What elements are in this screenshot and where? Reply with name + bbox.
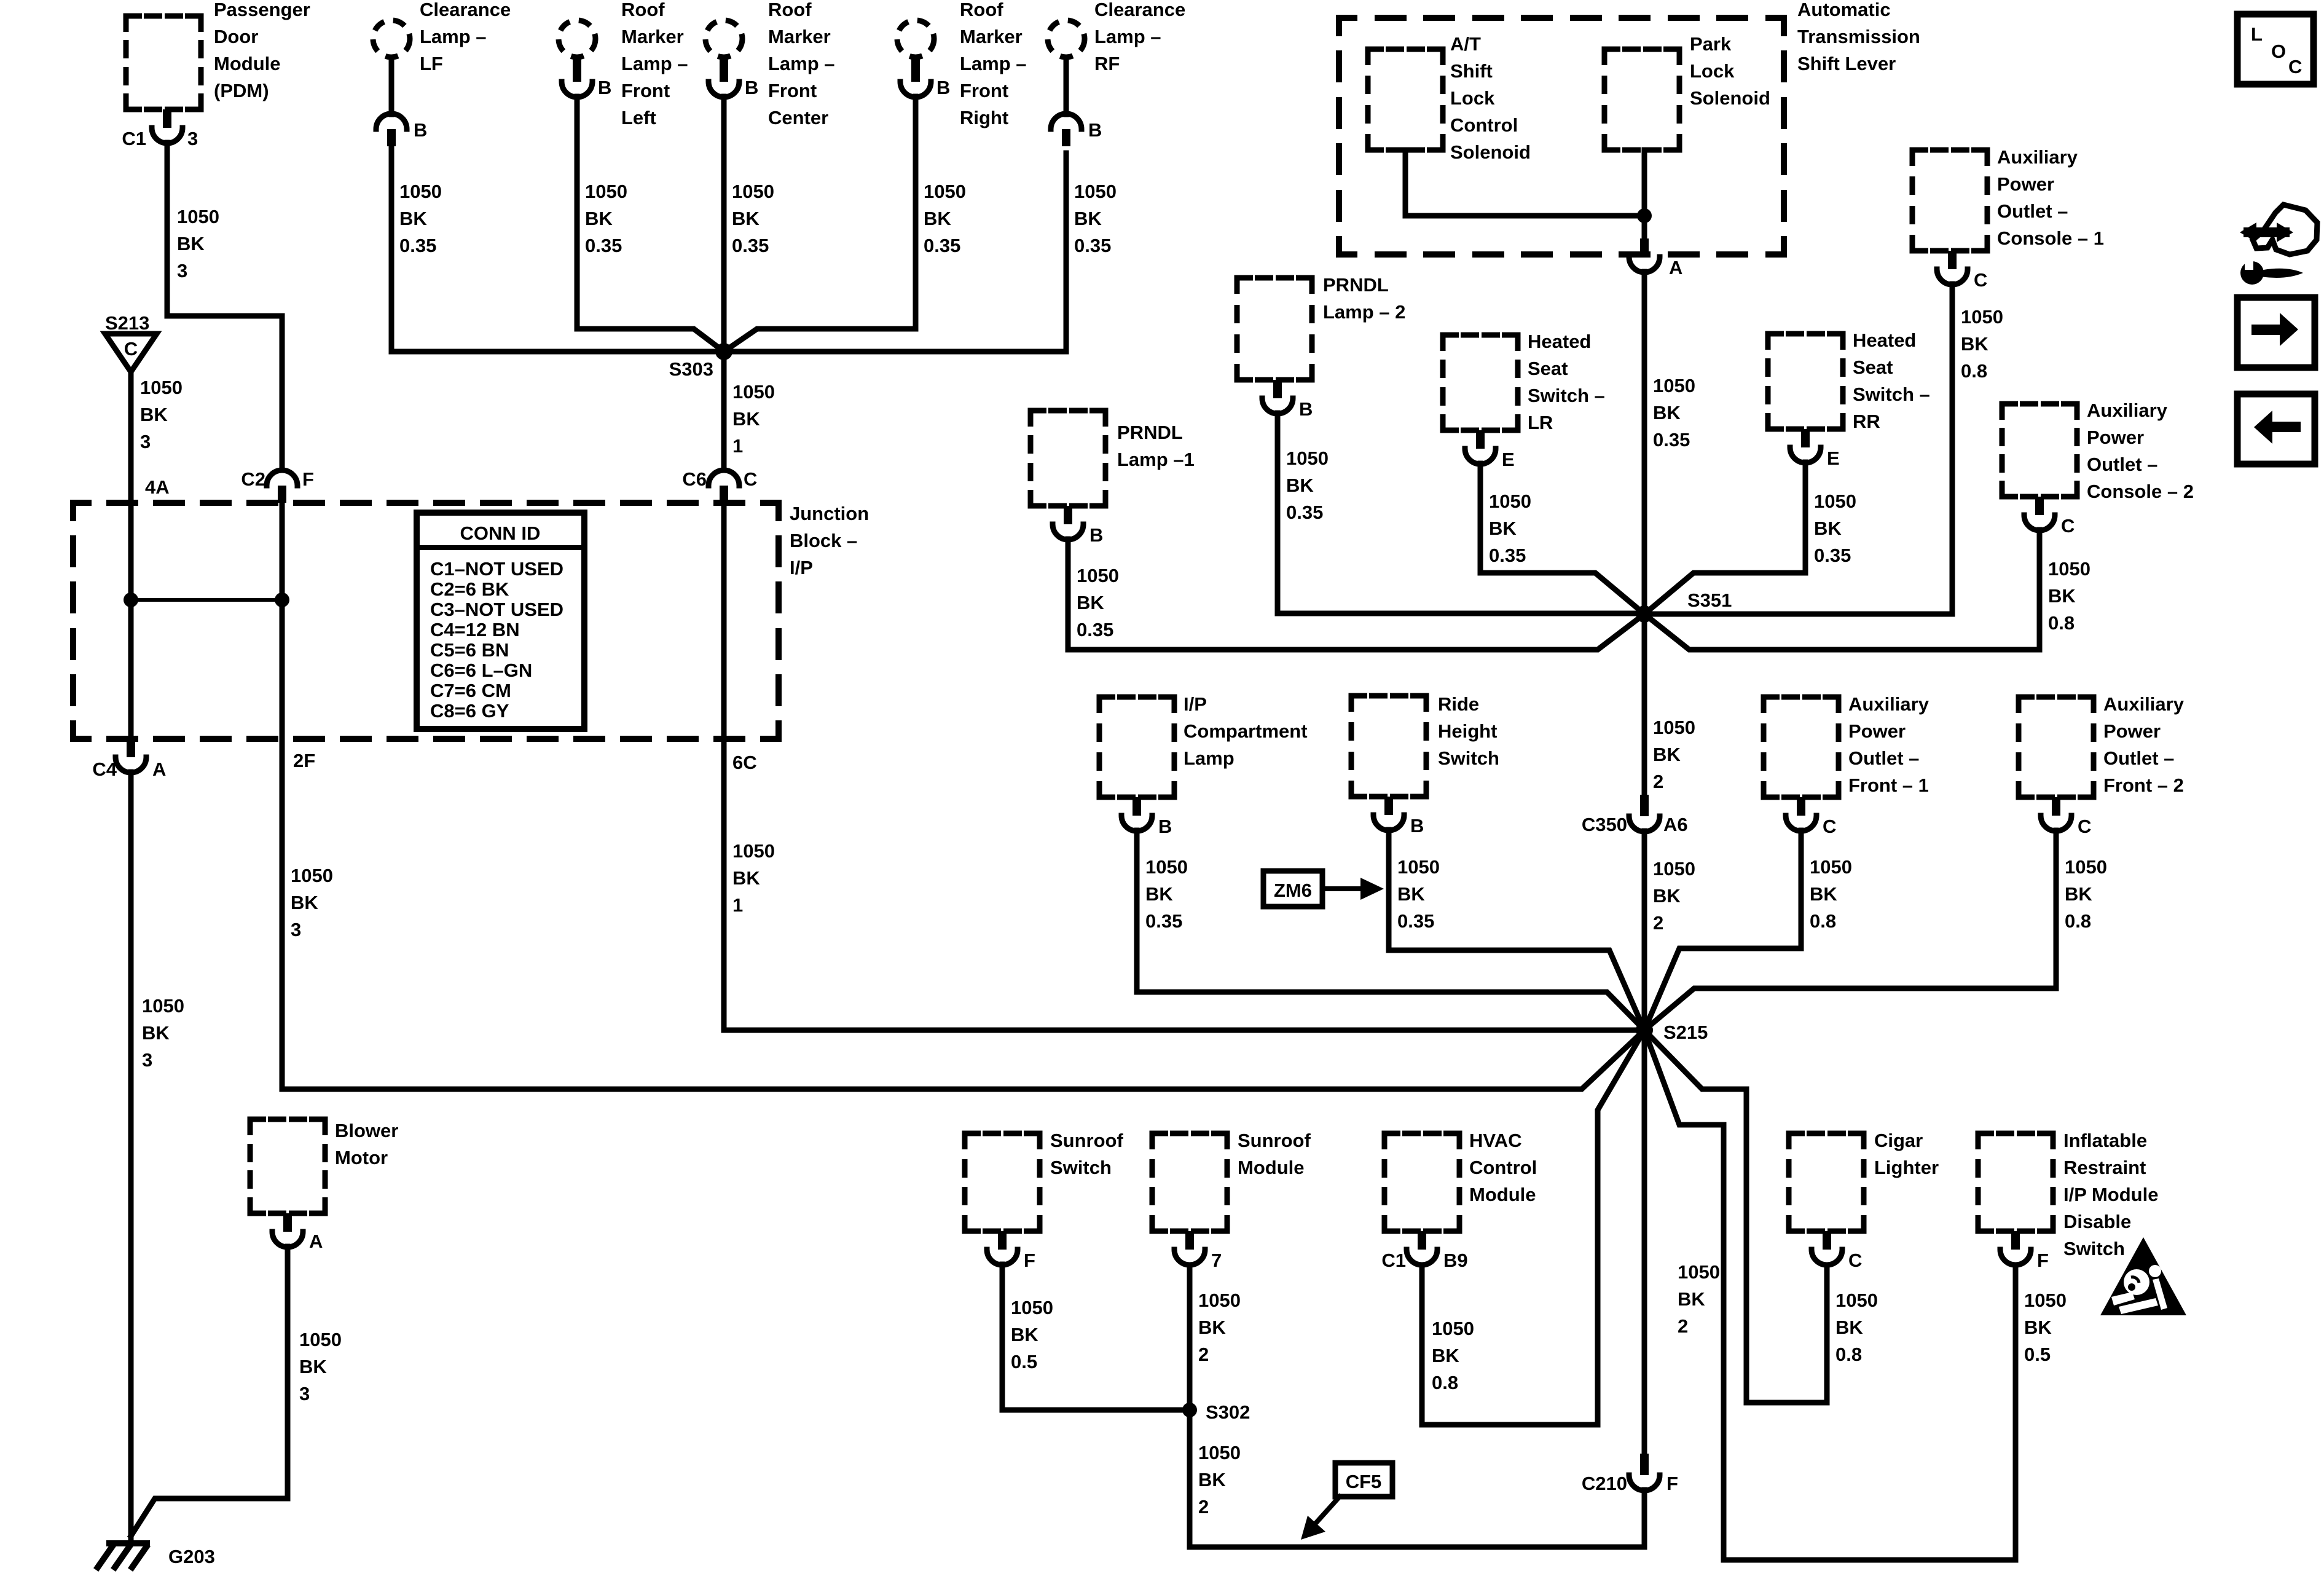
svg-text:C2=6 BK: C2=6 BK — [430, 578, 509, 600]
svg-text:C: C — [1974, 269, 1987, 291]
svg-text:Passenger: Passenger — [214, 0, 310, 20]
svg-text:0.35: 0.35 — [732, 235, 769, 256]
svg-text:0.35: 0.35 — [1653, 429, 1690, 451]
svg-text:Roof: Roof — [960, 0, 1003, 20]
connector C350 A6 — [1640, 795, 1649, 816]
svg-text:Right: Right — [960, 107, 1008, 128]
svg-text:A: A — [309, 1231, 323, 1252]
svg-text:1050: 1050 — [140, 377, 183, 398]
svg-text:Center: Center — [768, 107, 828, 128]
svg-text:BK: BK — [732, 408, 760, 430]
svg-text:Console – 1: Console – 1 — [1997, 227, 2104, 249]
svg-text:1050: 1050 — [1961, 306, 2003, 328]
splice S302 — [1182, 1403, 1197, 1417]
svg-text:1050: 1050 — [732, 381, 775, 403]
connector B (roof marker lamp front left) — [573, 59, 581, 82]
svg-text:Ride: Ride — [1438, 693, 1479, 715]
svg-text:Front – 2: Front – 2 — [2103, 774, 2184, 796]
splice S215 — [1636, 1022, 1653, 1039]
svg-text:B: B — [1299, 398, 1313, 420]
svg-text:Auxiliary: Auxiliary — [1848, 693, 1929, 715]
svg-text:C1: C1 — [1381, 1250, 1406, 1271]
connector C1 B9 (HVAC) — [1418, 1231, 1426, 1250]
svg-text:Control: Control — [1450, 114, 1518, 136]
svg-text:B9: B9 — [1443, 1250, 1468, 1271]
roof marker lamp front center — [705, 20, 742, 57]
svg-text:Auxiliary: Auxiliary — [2087, 400, 2168, 421]
svg-text:1050: 1050 — [1653, 858, 1695, 880]
svg-text:Switch –: Switch – — [1528, 385, 1605, 406]
svg-text:BK: BK — [1145, 883, 1173, 905]
svg-text:F: F — [302, 468, 314, 490]
svg-text:LR: LR — [1528, 412, 1553, 433]
svg-text:1050: 1050 — [1432, 1318, 1474, 1339]
svg-text:2: 2 — [1653, 771, 1663, 792]
svg-text:Lamp: Lamp — [1184, 747, 1235, 769]
svg-text:C350: C350 — [1582, 814, 1627, 835]
svg-text:BK: BK — [140, 404, 168, 425]
svg-text:A6: A6 — [1663, 814, 1688, 835]
svg-text:Transmission: Transmission — [1797, 26, 1920, 47]
svg-text:BK: BK — [585, 208, 613, 229]
svg-text:0.35: 0.35 — [1074, 235, 1111, 256]
svg-text:S302: S302 — [1206, 1401, 1250, 1423]
svg-text:BK: BK — [1653, 885, 1681, 907]
svg-text:2: 2 — [1198, 1344, 1209, 1365]
svg-text:3: 3 — [187, 128, 198, 149]
svg-text:(PDM): (PDM) — [214, 80, 269, 101]
svg-text:C: C — [1848, 1250, 1862, 1271]
svg-text:0.8: 0.8 — [1432, 1372, 1458, 1393]
svg-text:BK: BK — [1814, 518, 1842, 539]
svg-text:0.35: 0.35 — [1397, 910, 1434, 932]
connector B (ride height switch) — [1384, 797, 1393, 815]
svg-text:1050: 1050 — [1653, 375, 1695, 396]
wire PRNDL lamp 2 to S351 — [1278, 413, 1644, 613]
junction dot left — [124, 593, 138, 607]
wire heated seat LR to S351 — [1480, 463, 1644, 614]
svg-text:C: C — [124, 338, 138, 360]
wire main horizontal LF to RF at S303 — [391, 349, 1066, 355]
svg-text:S303: S303 — [669, 358, 713, 380]
wire PRNDL lamp 1 to S351 — [1068, 539, 1644, 650]
svg-text:7: 7 — [1211, 1250, 1222, 1271]
connector E (heated seat RR) — [1801, 429, 1810, 447]
svg-text:1050: 1050 — [1286, 447, 1329, 469]
svg-text:LF: LF — [420, 53, 443, 74]
Ride Height Switch box — [1351, 696, 1426, 797]
roof marker lamp front right — [897, 20, 934, 57]
junction dot A/T — [1637, 208, 1652, 223]
wire park lock solenoid down — [1642, 150, 1647, 238]
svg-text:1050: 1050 — [1835, 1290, 1878, 1311]
svg-text:1050: 1050 — [732, 181, 774, 202]
wire C4 to ground G203 — [128, 772, 134, 1541]
svg-text:BK: BK — [1653, 744, 1681, 765]
airbag warning triangle icon — [2100, 1237, 2186, 1315]
wire front 1 to S215 — [1644, 830, 1801, 1030]
svg-text:Lamp –: Lamp – — [1094, 26, 1161, 47]
wire I/P compartment lamp to S215 — [1137, 830, 1644, 1030]
wire C6 inside junction block — [721, 503, 727, 739]
svg-text:3: 3 — [142, 1049, 152, 1071]
connector B (PRNDL lamp 1) — [1064, 506, 1072, 524]
connector F (inflatable restraint) — [2011, 1231, 2020, 1250]
wire heated seat RR to S351 — [1644, 462, 1805, 614]
svg-text:C6: C6 — [682, 468, 707, 490]
connector C (front 2) — [2052, 797, 2060, 816]
Auxiliary Power Outlet - Console - 1 box — [1912, 150, 1987, 251]
wire S215 down to C210 — [1642, 1030, 1647, 1454]
svg-text:0.8: 0.8 — [2048, 612, 2075, 634]
svg-text:Sunroof: Sunroof — [1238, 1130, 1311, 1151]
svg-text:1050: 1050 — [1397, 856, 1440, 878]
svg-text:S213: S213 — [105, 312, 149, 334]
svg-text:Marker: Marker — [768, 26, 831, 47]
svg-text:A/T: A/T — [1450, 33, 1481, 55]
svg-text:Front: Front — [621, 80, 670, 101]
svg-text:C: C — [2078, 816, 2091, 837]
wire lamp to connector (clearance lamp RF) — [1064, 57, 1069, 114]
junction block I/P dashed box — [73, 503, 779, 739]
svg-text:Automatic: Automatic — [1797, 0, 1891, 20]
svg-text:C210: C210 — [1582, 1473, 1627, 1494]
connector C6 C (junction block) — [709, 470, 739, 486]
svg-text:1050: 1050 — [2065, 856, 2107, 878]
wire C350 to S215 — [1642, 831, 1647, 1030]
svg-text:1050: 1050 — [177, 206, 219, 227]
Sunroof Switch box — [965, 1133, 1040, 1231]
svg-text:Switch: Switch — [1050, 1157, 1112, 1178]
svg-text:Lamp –: Lamp – — [621, 53, 688, 74]
svg-text:Solenoid: Solenoid — [1450, 141, 1531, 163]
svg-text:Lock: Lock — [1690, 60, 1735, 82]
svg-text:BK: BK — [177, 233, 205, 254]
svg-text:Power: Power — [2103, 720, 2161, 742]
splice S303 — [715, 343, 732, 360]
connector F (sunroof switch) — [998, 1231, 1007, 1250]
wire ride height switch to S215 — [1389, 830, 1644, 1030]
svg-text:3: 3 — [177, 260, 187, 282]
wire console 1 to S351 — [1644, 284, 1952, 614]
Inflatable Restraint I/P Module Disable Switch box — [1978, 1133, 2053, 1231]
svg-text:BK: BK — [2065, 883, 2092, 905]
connector C210 F — [1640, 1454, 1649, 1475]
svg-text:CF5: CF5 — [1346, 1471, 1382, 1492]
LOC legend box — [2237, 14, 2314, 84]
svg-text:Switch –: Switch – — [1853, 384, 1930, 405]
svg-text:Compartment: Compartment — [1184, 720, 1308, 742]
PRNDL Lamp - 2 box — [1237, 278, 1312, 380]
svg-text:Height: Height — [1438, 720, 1497, 742]
svg-text:B: B — [1088, 119, 1102, 141]
svg-text:6C: 6C — [732, 752, 757, 773]
svg-text:BK: BK — [1198, 1469, 1226, 1490]
svg-text:C: C — [2288, 56, 2302, 77]
svg-text:Roof: Roof — [768, 0, 812, 20]
svg-text:0.5: 0.5 — [1011, 1351, 1037, 1372]
svg-text:Inflatable: Inflatable — [2063, 1130, 2147, 1151]
Auxiliary Power Outlet - Console - 2 box — [2002, 404, 2077, 497]
svg-text:G203: G203 — [168, 1546, 215, 1567]
svg-text:Auxiliary: Auxiliary — [1997, 146, 2078, 168]
svg-text:0.35: 0.35 — [1077, 619, 1113, 640]
CONN ID table — [417, 513, 584, 729]
wire C1 to junction block C2 — [167, 143, 282, 470]
svg-text:BK: BK — [1432, 1345, 1459, 1366]
svg-text:Control: Control — [1469, 1157, 1537, 1178]
svg-text:0.35: 0.35 — [1286, 502, 1323, 523]
svg-text:F: F — [1666, 1473, 1678, 1494]
wire console 2 to S351 — [1644, 530, 2039, 650]
junction dot right — [275, 593, 289, 607]
svg-text:HVAC: HVAC — [1469, 1130, 1522, 1151]
Auxiliary Power Outlet - Front - 1 box — [1764, 697, 1839, 797]
roof marker lamp front left — [559, 20, 595, 57]
svg-text:0.35: 0.35 — [1814, 545, 1851, 566]
svg-text:1050: 1050 — [1077, 565, 1119, 586]
Blower Motor box — [250, 1119, 325, 1213]
ZM6 callout box — [1263, 871, 1322, 907]
svg-text:0.5: 0.5 — [2024, 1344, 2051, 1365]
Cigar Lighter box — [1789, 1133, 1864, 1231]
svg-text:L: L — [2251, 23, 2263, 45]
connector B (clearance lamp LF) — [376, 114, 407, 129]
CF5 arrow — [1313, 1497, 1340, 1527]
svg-text:Outlet –: Outlet – — [1848, 747, 1919, 769]
svg-text:B: B — [1410, 815, 1424, 837]
clearance lamp RF — [1048, 20, 1085, 57]
svg-text:I/P: I/P — [1184, 693, 1207, 715]
CF5 callout box — [1335, 1463, 1392, 1497]
svg-text:E: E — [1827, 447, 1840, 469]
connector B (PRNDL lamp 2) — [1273, 380, 1282, 398]
ground symbol G203 — [109, 1540, 147, 1546]
connector B (I/P compartment lamp) — [1133, 797, 1141, 816]
svg-text:0.35: 0.35 — [399, 235, 436, 256]
svg-text:BK: BK — [1835, 1317, 1863, 1338]
Heated Seat Switch - LR box — [1443, 335, 1518, 430]
wire S215 to HVAC control module — [1422, 1030, 1644, 1425]
svg-text:Power: Power — [2087, 427, 2144, 448]
svg-text:BK: BK — [924, 208, 951, 229]
svg-text:B: B — [936, 77, 950, 98]
wire C2 inside junction block — [280, 503, 285, 739]
svg-text:Switch: Switch — [2063, 1238, 2125, 1259]
wire roof marker FC down to S303 — [721, 96, 727, 352]
svg-text:Lamp –: Lamp – — [768, 53, 835, 74]
I/P Compartment Lamp box — [1099, 697, 1174, 797]
svg-text:BK: BK — [1077, 592, 1104, 613]
svg-text:1050: 1050 — [1198, 1290, 1241, 1311]
connector C (console 1) — [1948, 251, 1957, 269]
svg-text:0.8: 0.8 — [1961, 360, 1987, 382]
svg-text:Module: Module — [1238, 1157, 1305, 1178]
svg-text:Lamp – 2: Lamp – 2 — [1323, 301, 1405, 323]
svg-text:Marker: Marker — [960, 26, 1023, 47]
svg-text:Junction: Junction — [790, 503, 869, 524]
connector C4 A (junction block bottom) — [127, 739, 135, 757]
svg-text:1050: 1050 — [1145, 856, 1188, 878]
svg-text:Motor: Motor — [335, 1147, 388, 1168]
wire 2F to S215 — [282, 739, 1644, 1089]
svg-text:3: 3 — [140, 431, 151, 452]
wire 4A inside junction block — [128, 503, 134, 739]
svg-text:0.35: 0.35 — [1489, 545, 1526, 566]
clearance lamp LF — [373, 20, 410, 57]
svg-text:Marker: Marker — [621, 26, 684, 47]
svg-text:Power: Power — [1997, 173, 2054, 195]
svg-text:Front: Front — [960, 80, 1008, 101]
connector A (blower motor) — [283, 1213, 292, 1232]
svg-text:1050: 1050 — [1810, 856, 1852, 878]
svg-text:BK: BK — [142, 1022, 170, 1044]
svg-text:F: F — [2037, 1250, 2049, 1271]
svg-text:A: A — [1669, 257, 1682, 278]
connector C (front 1) — [1797, 797, 1805, 816]
connector 7 (sunroof module) — [1185, 1231, 1194, 1250]
wire clearance LF down to S303 line — [389, 148, 395, 352]
Sunroof Module box — [1152, 1133, 1227, 1231]
svg-text:C1: C1 — [122, 128, 146, 149]
svg-text:Park: Park — [1690, 33, 1732, 55]
connector B (roof marker lamp front right) — [911, 59, 920, 82]
svg-text:1050: 1050 — [1074, 181, 1117, 202]
svg-text:Module: Module — [1469, 1184, 1536, 1205]
splice S351 — [1636, 605, 1653, 623]
splice symbol S213 — [105, 334, 157, 372]
svg-text:1050: 1050 — [299, 1329, 342, 1350]
Auxiliary Power Outlet - Front - 2 box — [2019, 697, 2094, 797]
svg-text:0.8: 0.8 — [1835, 1344, 1862, 1365]
svg-text:C3–NOT USED: C3–NOT USED — [430, 599, 563, 620]
svg-text:Left: Left — [621, 107, 656, 128]
wire A/T shift lock to park lock wire — [1405, 150, 1644, 216]
wire roof marker FL down — [577, 96, 724, 352]
svg-text:Clearance: Clearance — [1094, 0, 1185, 20]
svg-text:0.35: 0.35 — [585, 235, 622, 256]
svg-text:BK: BK — [732, 208, 760, 229]
svg-text:2: 2 — [1678, 1315, 1688, 1337]
svg-text:1050: 1050 — [399, 181, 442, 202]
wire clearance RF down to S303 line — [1064, 153, 1069, 352]
svg-text:Lock: Lock — [1450, 87, 1495, 109]
svg-text:Blower: Blower — [335, 1120, 398, 1141]
svg-text:C1–NOT USED: C1–NOT USED — [430, 558, 563, 580]
svg-text:Restraint: Restraint — [2063, 1157, 2146, 1178]
wire S351 to C350 — [1642, 614, 1647, 795]
wire blower motor to ground — [131, 1246, 288, 1536]
svg-text:C: C — [744, 468, 757, 490]
svg-text:Lamp –: Lamp – — [960, 53, 1027, 74]
svg-text:RR: RR — [1853, 411, 1880, 432]
connector B (roof marker lamp front center) — [720, 59, 728, 82]
svg-text:Lamp –: Lamp – — [420, 26, 487, 47]
svg-text:B: B — [1089, 524, 1103, 546]
svg-text:1050: 1050 — [1011, 1297, 1053, 1318]
svg-text:1050: 1050 — [142, 995, 184, 1017]
svg-text:Block –: Block – — [790, 530, 857, 551]
svg-text:C2: C2 — [241, 468, 265, 490]
connector C2 F (junction block) — [267, 470, 297, 486]
svg-text:CONN ID: CONN ID — [460, 522, 541, 544]
svg-text:3: 3 — [291, 919, 301, 940]
wire shift lever to S351 — [1642, 272, 1647, 614]
svg-text:E: E — [1502, 449, 1515, 470]
svg-text:1050: 1050 — [1198, 1442, 1241, 1463]
svg-text:I/P Module: I/P Module — [2063, 1184, 2158, 1205]
svg-text:F: F — [1024, 1250, 1035, 1271]
svg-text:Front: Front — [768, 80, 817, 101]
svg-text:S351: S351 — [1687, 589, 1732, 611]
wire S213 to junction block 4A — [128, 372, 134, 503]
wire S303 to junction block C6 — [721, 352, 727, 470]
svg-text:1050: 1050 — [585, 181, 627, 202]
connector A (shift lever) — [1640, 238, 1649, 257]
svg-text:3: 3 — [299, 1383, 310, 1404]
wire crossbar inside junction block — [131, 598, 282, 602]
svg-text:2: 2 — [1653, 912, 1663, 934]
svg-text:BK: BK — [1198, 1317, 1226, 1338]
wire roof marker FR down — [724, 96, 916, 352]
svg-text:BK: BK — [1653, 402, 1681, 423]
svg-text:1050: 1050 — [1653, 717, 1695, 738]
svg-text:BK: BK — [2024, 1317, 2052, 1338]
svg-text:C: C — [1823, 816, 1836, 837]
svg-text:1050: 1050 — [2048, 558, 2090, 580]
ZM6 arrow — [1322, 886, 1367, 891]
svg-text:BK: BK — [1397, 883, 1425, 905]
svg-text:PRNDL: PRNDL — [1323, 274, 1389, 296]
svg-text:BK: BK — [1961, 333, 1988, 355]
svg-text:Seat: Seat — [1528, 358, 1568, 379]
svg-text:BK: BK — [399, 208, 427, 229]
svg-text:BK: BK — [732, 867, 760, 889]
PRNDL Lamp -1 box — [1030, 411, 1105, 506]
svg-text:RF: RF — [1094, 53, 1120, 74]
svg-text:C5=6 BN: C5=6 BN — [430, 639, 509, 661]
wire S215 to inflatable restraint switch — [1644, 1030, 2016, 1560]
A/T Shift Lock Control Solenoid box — [1368, 49, 1443, 150]
svg-text:C4=12 BN: C4=12 BN — [430, 619, 520, 640]
svg-text:1050: 1050 — [291, 865, 333, 886]
svg-text:1050: 1050 — [2024, 1290, 2067, 1311]
svg-text:BK: BK — [299, 1356, 327, 1377]
svg-text:Auxiliary: Auxiliary — [2103, 693, 2185, 715]
svg-text:BK: BK — [1489, 518, 1517, 539]
svg-text:Outlet –: Outlet – — [2087, 454, 2157, 475]
previous-page arrow box — [2237, 394, 2315, 464]
svg-text:BK: BK — [2048, 585, 2076, 607]
Passenger Door Module (PDM) box — [126, 16, 201, 109]
svg-text:Outlet –: Outlet – — [2103, 747, 2174, 769]
connector B (clearance lamp RF) — [1051, 114, 1082, 129]
svg-text:Power: Power — [1848, 720, 1906, 742]
wire front 2 to S215 — [1644, 830, 2056, 1030]
svg-text:PRNDL: PRNDL — [1117, 422, 1183, 443]
wire 6C to S215 — [724, 739, 1644, 1030]
svg-text:Clearance: Clearance — [420, 0, 511, 20]
connector E (heated seat LR) — [1476, 430, 1485, 449]
svg-text:BK: BK — [1678, 1288, 1705, 1310]
svg-text:C6=6 L–GN: C6=6 L–GN — [430, 660, 532, 681]
svg-text:A: A — [152, 758, 166, 780]
shift lever position icon — [2253, 205, 2317, 254]
svg-text:Module: Module — [214, 53, 281, 74]
svg-text:BK: BK — [291, 892, 318, 913]
svg-text:1050: 1050 — [1678, 1261, 1720, 1283]
wire S215 to cigar lighter — [1644, 1030, 1827, 1403]
